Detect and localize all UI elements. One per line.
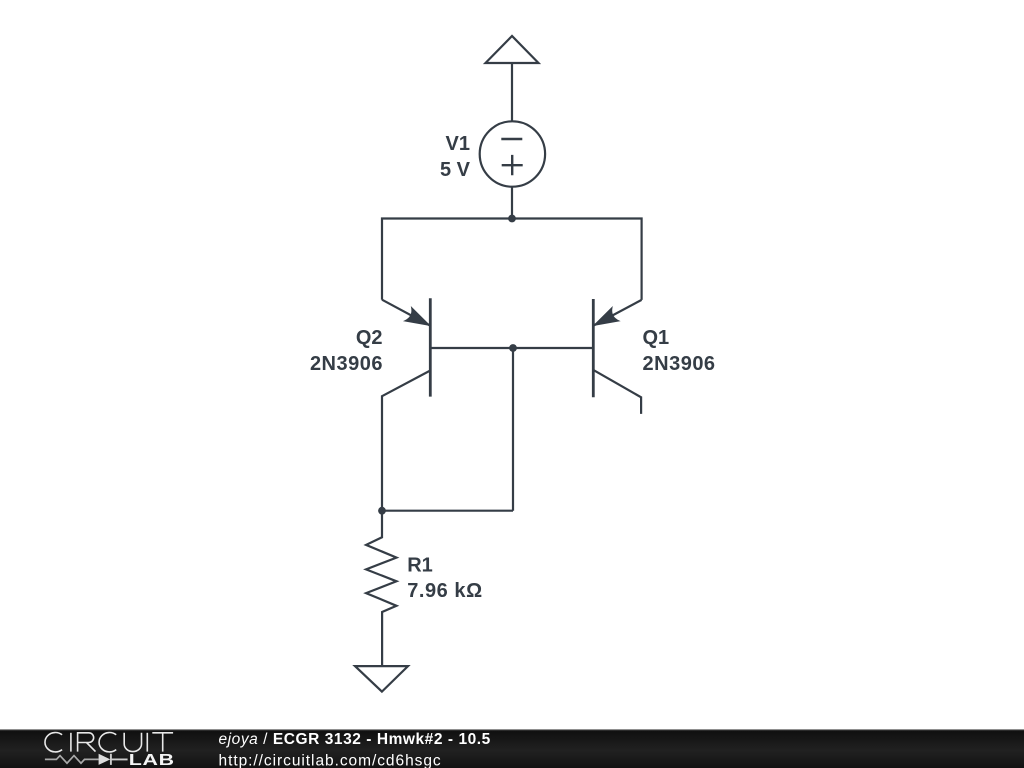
V1 minus sign: [501, 138, 522, 140]
logo letter I: [70, 733, 72, 752]
node dot base: [509, 344, 517, 352]
ground: [355, 666, 408, 692]
transistor Q1 collector stub: [593, 370, 641, 414]
node dot left: [378, 507, 386, 515]
logo letter C: [99, 732, 116, 751]
svg-text:R1: R1: [407, 555, 433, 577]
transistor Q1 emitter diagonal: [594, 300, 642, 326]
svg-text:7.96 kΩ: 7.96 kΩ: [407, 580, 483, 602]
svg-text:ejoya / ECGR 3132 - Hmwk#2 - 1: ejoya / ECGR 3132 - Hmwk#2 - 10.5: [219, 731, 491, 748]
node dot top: [508, 215, 516, 223]
svg-text:Q2: Q2: [356, 327, 383, 349]
transistor Q2 collector and wire down: [382, 371, 430, 511]
power supply VCC arrow: [486, 36, 539, 63]
transistor Q2 emitter diagonal: [382, 300, 430, 326]
resistor R1 zigzag: [366, 511, 396, 666]
svg-text:V1: V1: [446, 133, 470, 155]
logo letter T: [152, 733, 173, 752]
wire: [511, 186, 513, 218]
logo letter U: [124, 733, 141, 752]
logo letter I: [146, 733, 148, 752]
svg-text:2N3906: 2N3906: [310, 353, 383, 375]
svg-text:Q1: Q1: [643, 327, 670, 349]
transistor Q1 emitter arrow: [594, 308, 619, 326]
wire base down: [512, 348, 514, 511]
logo resistor squiggle: [45, 756, 99, 764]
V1 plus sign: [502, 155, 523, 175]
logo letter R: [78, 733, 96, 752]
svg-text:5 V: 5 V: [440, 159, 471, 181]
wire horizontal to R1: [382, 510, 513, 512]
transistor Q2 base bar: [429, 298, 432, 396]
transistor Q1 base bar: [592, 299, 595, 397]
svg-text:LAB: LAB: [129, 751, 175, 768]
wire: [511, 63, 513, 122]
footer bar: [0, 729, 1024, 768]
logo CIRCUIT letter C: [45, 732, 62, 751]
logo diode: [99, 754, 111, 765]
svg-text:2N3906: 2N3906: [643, 353, 716, 375]
wire top bus with side drops: [382, 219, 642, 300]
svg-text:http://circuitlab.com/cd6hsgc: http://circuitlab.com/cd6hsgc: [219, 752, 442, 768]
wire base connection: [430, 347, 593, 349]
transistor Q2 emitter arrow: [405, 308, 430, 326]
voltage source V1 circle: [480, 121, 545, 186]
